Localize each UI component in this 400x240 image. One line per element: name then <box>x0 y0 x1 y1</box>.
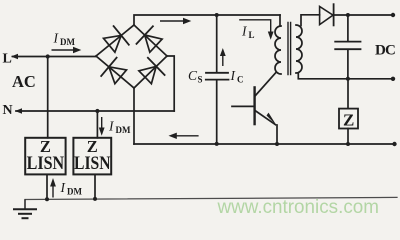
svg-text:I: I <box>60 180 67 195</box>
transistor Q1 emitter <box>255 111 276 125</box>
arrow IL (down, with overline bend) <box>239 20 271 33</box>
label IDM mid <box>108 119 131 136</box>
wire bridge edge TL <box>96 25 134 56</box>
wire ground line <box>25 197 397 199</box>
wire Z load lower <box>347 129 349 145</box>
svg-text:AC: AC <box>12 72 36 91</box>
transistor Q1 base bar <box>253 87 255 124</box>
svg-text:S: S <box>198 75 203 85</box>
svg-text:LISN: LISN <box>74 153 111 174</box>
capacitor Cout plates <box>335 42 360 50</box>
arrow return (left) on bottom region <box>176 135 199 137</box>
diode D2 (top-right) <box>145 35 162 52</box>
wire secondary top riser <box>301 15 320 26</box>
wire Cs branch lower <box>216 80 218 144</box>
LISN box 1 <box>25 137 65 175</box>
wire output cap branch lower <box>347 50 349 79</box>
wire LISN2 drop from N <box>96 111 98 138</box>
svg-text:I: I <box>241 24 248 39</box>
wire bridge edge BR <box>134 56 167 88</box>
wire bridge edge BL <box>96 56 134 88</box>
wire Cs branch upper <box>216 15 218 72</box>
arrow IDM top (right) <box>52 49 75 51</box>
svg-text:I: I <box>108 119 115 134</box>
transformer secondary winding <box>296 25 302 73</box>
label Cs <box>188 68 203 85</box>
node N terminal arrowhead <box>15 108 22 113</box>
svg-text:DM: DM <box>60 37 75 47</box>
wire LISN1 to ground line <box>46 174 48 199</box>
transformer core <box>288 23 291 75</box>
transistor Q1 collector <box>255 72 276 96</box>
diode D4 (bottom-right) <box>139 66 156 83</box>
svg-text:DC: DC <box>375 42 395 58</box>
svg-text:DM: DM <box>67 187 82 197</box>
diode D1 (top-left) <box>104 35 122 52</box>
wire primary top riser <box>279 15 281 26</box>
svg-text:L: L <box>249 30 255 40</box>
svg-text:C: C <box>237 75 244 85</box>
capacitor Cs plates <box>206 73 229 80</box>
arrow IC (up) <box>222 55 224 66</box>
node junction L-LISN1 <box>46 54 50 58</box>
wire bridge top corner to top rail <box>134 15 280 25</box>
transistor Q1 base wire <box>232 105 254 107</box>
node L terminal arrowhead <box>11 54 18 59</box>
arrow IDM mid (down) <box>101 117 103 129</box>
wire bridge edge TR <box>134 25 167 56</box>
label IDM bottom <box>60 180 83 197</box>
wire N to bridge right corner riser <box>167 56 174 111</box>
svg-text:DM: DM <box>116 125 131 135</box>
diode D output: triangle <box>320 7 333 25</box>
bridge rectifier outline <box>96 25 167 88</box>
svg-text:C: C <box>188 68 198 83</box>
wire L line <box>13 56 96 58</box>
diode D3 (bottom-left) <box>109 67 127 84</box>
svg-text:www.cntronics.com: www.cntronics.com <box>217 197 379 218</box>
wire secondary bottom <box>298 74 393 79</box>
wire LISN1 drop from L <box>47 57 49 138</box>
wire LISN2 to ground line <box>94 174 96 199</box>
transformer primary winding <box>275 26 281 74</box>
wire bridge bottom drop to bottom rail <box>133 88 135 144</box>
diode D output: cathode bar <box>333 4 335 25</box>
svg-text:Z: Z <box>343 111 354 130</box>
LISN box 2 <box>73 137 111 175</box>
ground <box>13 199 37 218</box>
current arrows <box>50 18 274 198</box>
svg-text:I: I <box>53 31 60 46</box>
label IL <box>241 24 255 41</box>
arrow top rail (right) <box>160 20 184 22</box>
svg-text:LISN: LISN <box>27 153 65 174</box>
svg-text:L: L <box>3 51 12 66</box>
transistor Q1 emitter arrowhead <box>267 113 277 126</box>
wire output cap branch upper <box>347 15 349 41</box>
arrow IDM bottom (up) <box>52 186 54 198</box>
svg-text:I: I <box>230 68 237 83</box>
label IDM top <box>53 31 76 48</box>
wire emitter to bottom rail <box>276 125 278 144</box>
wire main bottom rail <box>134 143 395 145</box>
node junction N-LISN2 <box>95 109 99 113</box>
svg-text:N: N <box>3 103 13 118</box>
load box Z <box>339 109 358 130</box>
wire Z load upper <box>347 79 349 109</box>
wire N line <box>16 110 174 112</box>
label IC <box>230 68 244 85</box>
node junction dots <box>45 13 397 202</box>
wire diode cathode to right terminal <box>334 14 393 16</box>
